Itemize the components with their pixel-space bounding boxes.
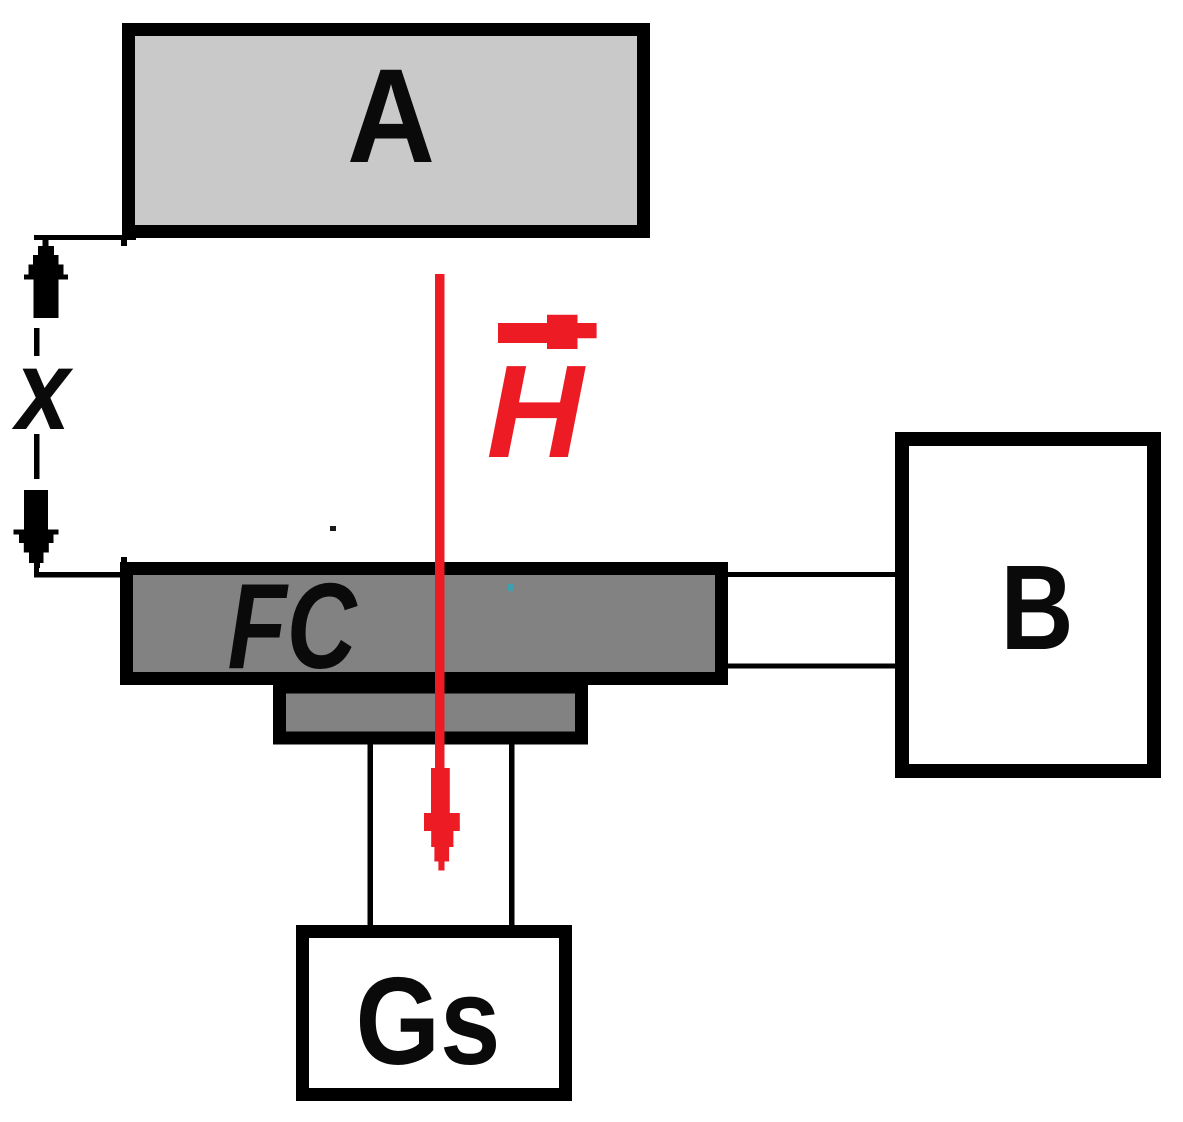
red vector arrow over H bbox=[498, 315, 597, 349]
svg-text:A: A bbox=[347, 42, 435, 191]
dimension line bottom vertical stub bbox=[34, 566, 39, 577]
down arrow bbox=[14, 490, 59, 568]
dimension line bottom bbox=[34, 572, 122, 578]
dimension line top bbox=[34, 235, 136, 240]
neck right wall bbox=[509, 743, 515, 929]
svg-text:FC: FC bbox=[228, 558, 358, 694]
tick at A corner bbox=[121, 235, 127, 246]
tick at FC corner bbox=[121, 557, 127, 568]
svg-text:Gs: Gs bbox=[356, 953, 501, 1091]
svg-text:B: B bbox=[1001, 539, 1074, 675]
sub plate bbox=[280, 687, 582, 738]
small dot bbox=[330, 526, 336, 531]
neck left wall bbox=[368, 743, 374, 929]
box Gs bbox=[303, 932, 566, 1095]
box B bbox=[902, 439, 1154, 771]
red field line H vertical bbox=[435, 274, 445, 768]
up arrow bbox=[24, 240, 68, 318]
dashed line segment 2 bbox=[34, 434, 40, 479]
box FC bbox=[127, 569, 722, 679]
wire top (FC to B) bbox=[722, 572, 902, 577]
red arrowhead down bbox=[424, 768, 460, 871]
svg-text:H: H bbox=[487, 338, 587, 485]
cyan dot bbox=[508, 584, 513, 591]
dashed line segment 1 bbox=[34, 328, 40, 356]
svg-text:x: x bbox=[11, 327, 74, 454]
box A bbox=[129, 30, 644, 232]
wire bottom (FC to B) bbox=[722, 664, 902, 669]
